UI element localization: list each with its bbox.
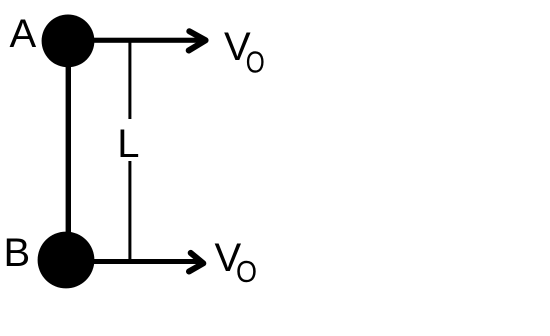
svg-text:L: L (117, 122, 139, 166)
node A ball (42, 15, 95, 68)
svg-text:A: A (10, 12, 37, 56)
node B ball (38, 232, 95, 289)
svg-text:B: B (4, 231, 31, 275)
wire bottom velocity arrow shaft (88, 259, 200, 264)
wire top velocity arrow shaft (90, 38, 203, 43)
wire thin measure line lower segment (128, 161, 131, 261)
wire thin measure line upper segment (128, 40, 131, 120)
svg-text:O: O (246, 45, 265, 80)
bottom arrowhead (189, 253, 203, 272)
top arrowhead (189, 31, 206, 50)
wire AB vertical rod (66, 41, 71, 260)
svg-text:O: O (236, 254, 257, 289)
